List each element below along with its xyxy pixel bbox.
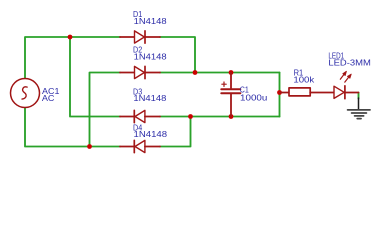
wire D4 anode riser to D3 row bbox=[160, 117, 191, 147]
wire LED cathode to ground stub bbox=[358, 93, 360, 99]
node junction C1 top bbox=[229, 70, 234, 75]
svg-text:LED-3MM: LED-3MM bbox=[328, 58, 371, 68]
wire output rail D2 cathode to right bbox=[160, 72, 280, 74]
ac source AC1 bbox=[11, 79, 40, 108]
wire AC- bottom rail to D4 bbox=[25, 108, 120, 147]
led LED1 bbox=[334, 71, 359, 98]
svg-text:1N4148: 1N4148 bbox=[134, 129, 168, 139]
node A junction on top rail bbox=[68, 35, 73, 40]
svg-text:1000u: 1000u bbox=[240, 93, 268, 103]
svg-text:AC: AC bbox=[42, 93, 55, 103]
diode D4 (pointing left) bbox=[120, 140, 160, 152]
node junction D4 riser on D3 row bbox=[188, 114, 193, 119]
node junction R1 tap bbox=[277, 90, 282, 95]
capacitor C1 bbox=[221, 73, 240, 117]
node junction bottom rail bbox=[87, 144, 92, 149]
diode D2 bbox=[120, 66, 160, 78]
svg-text:100k: 100k bbox=[293, 75, 315, 85]
svg-text:1N4148: 1N4148 bbox=[134, 16, 167, 26]
wire right vertical bbox=[279, 73, 281, 117]
node junction D1/D2 cathodes bbox=[193, 70, 198, 75]
wire D2 anode riser from bottom rail bbox=[90, 73, 121, 147]
svg-text:1N4148: 1N4148 bbox=[133, 93, 166, 103]
ground bbox=[348, 98, 370, 119]
wire D3 row right rail bbox=[160, 116, 280, 118]
diode D1 bbox=[120, 31, 160, 43]
diode D3 (pointing left) bbox=[120, 110, 160, 122]
wire top rail from AC+ to D1 anode bbox=[25, 37, 120, 79]
node junction C1 bottom bbox=[229, 114, 234, 119]
svg-text:1N4148: 1N4148 bbox=[134, 51, 167, 61]
wire vertical from node A to D3 row bbox=[70, 37, 120, 117]
wire D1 cathode to D2 output rail bbox=[160, 37, 195, 73]
resistor R1 bbox=[280, 88, 335, 96]
